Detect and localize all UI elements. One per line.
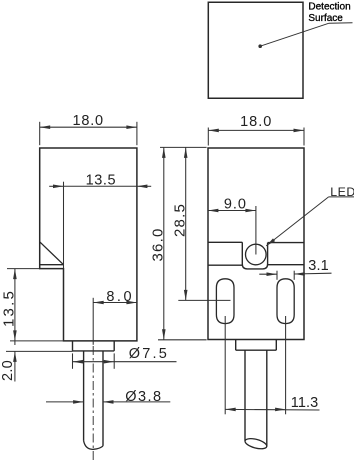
svg-text:11.3: 11.3: [291, 395, 319, 411]
svg-text:3.1: 3.1: [308, 258, 329, 274]
svg-text:2.0: 2.0: [0, 360, 16, 381]
svg-text:9.0: 9.0: [224, 196, 247, 212]
svg-text:LED: LED: [330, 185, 354, 199]
svg-text:13.5: 13.5: [86, 173, 117, 189]
svg-text:Ø7.5: Ø7.5: [129, 346, 169, 362]
svg-text:13.5: 13.5: [1, 289, 18, 327]
svg-text:Detection: Detection: [308, 1, 350, 12]
svg-text:28.5: 28.5: [171, 203, 188, 237]
svg-text:Surface: Surface: [308, 13, 343, 24]
svg-text:8.0: 8.0: [106, 289, 134, 305]
svg-text:18.0: 18.0: [240, 114, 272, 130]
svg-text:Ø3.8: Ø3.8: [125, 389, 162, 405]
svg-text:18.0: 18.0: [72, 113, 103, 129]
svg-text:36.0: 36.0: [149, 228, 166, 262]
